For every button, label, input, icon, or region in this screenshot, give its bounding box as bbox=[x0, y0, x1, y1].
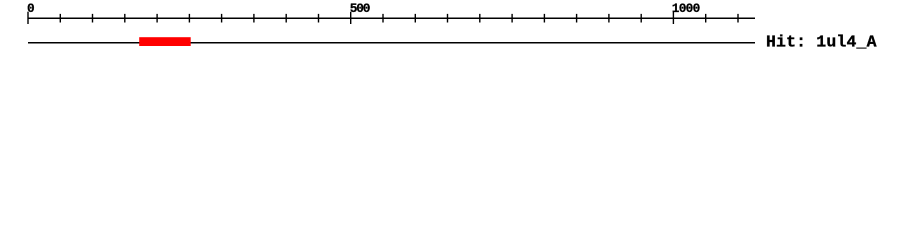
hit alignment block (red) bbox=[139, 37, 191, 46]
svg-text:0: 0 bbox=[27, 1, 35, 16]
ruler major tick 0 bbox=[27, 12, 29, 24]
ruler major tick 1000 bbox=[672, 12, 674, 24]
ruler minor ticks bbox=[60, 14, 738, 23]
ruler axis line bbox=[28, 17, 755, 19]
svg-text:1000: 1000 bbox=[672, 1, 701, 16]
ruler major tick 500 bbox=[350, 12, 352, 24]
svg-text:500: 500 bbox=[350, 1, 371, 16]
svg-text:Hit: 1ul4_A: Hit: 1ul4_A bbox=[766, 33, 877, 52]
hit line bbox=[28, 42, 755, 44]
